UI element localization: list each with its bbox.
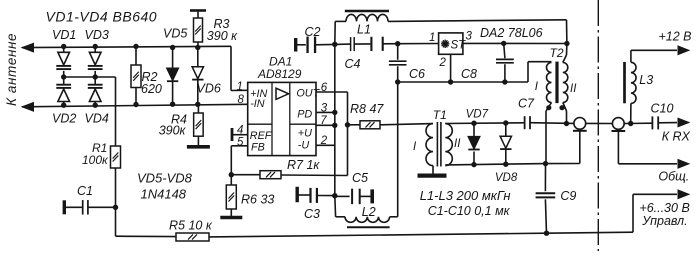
svg-text:C4: C4 [345, 57, 361, 71]
svg-text:FB: FB [251, 142, 265, 154]
svg-text:II: II [570, 83, 577, 95]
svg-text:2: 2 [320, 135, 328, 147]
svg-text:7: 7 [320, 115, 327, 127]
svg-text:VD5-VD8: VD5-VD8 [137, 171, 193, 186]
svg-text:2: 2 [439, 57, 447, 69]
svg-text:VD6: VD6 [197, 82, 221, 96]
svg-text:1: 1 [429, 32, 435, 44]
svg-text:8: 8 [238, 94, 245, 106]
svg-text:VD5: VD5 [163, 26, 187, 40]
svg-text:OUT: OUT [296, 87, 320, 99]
svg-text:C2: C2 [305, 25, 321, 39]
svg-text:С1-С10 0,1 мк: С1-С10 0,1 мк [428, 204, 511, 218]
svg-text:T2: T2 [550, 46, 564, 60]
svg-text:+6...30 В: +6...30 В [639, 201, 689, 215]
svg-text:C6: C6 [409, 67, 425, 81]
svg-text:C8: C8 [461, 67, 477, 81]
svg-text:L1-L3 200 мкГн: L1-L3 200 мкГн [420, 188, 511, 203]
svg-text:C5: C5 [352, 171, 368, 185]
svg-text:VD2: VD2 [52, 112, 76, 126]
svg-text:C3: C3 [304, 207, 320, 221]
svg-text:VD4: VD4 [85, 112, 109, 126]
svg-text:R5 10 к: R5 10 к [169, 219, 213, 233]
svg-text:-IN: -IN [250, 98, 265, 110]
svg-text:VD1-VD4 BB640: VD1-VD4 BB640 [46, 9, 158, 25]
svg-text:R7 1к: R7 1к [287, 158, 320, 172]
svg-text:3: 3 [466, 31, 473, 43]
svg-text:VD7: VD7 [466, 109, 489, 121]
svg-text:6: 6 [321, 82, 328, 94]
svg-text:1: 1 [237, 81, 243, 93]
svg-text:3: 3 [321, 103, 328, 115]
svg-text:VD3: VD3 [85, 28, 109, 42]
svg-text:К RX: К RX [662, 130, 691, 144]
svg-text:R8 47: R8 47 [350, 102, 384, 116]
svg-text:C9: C9 [560, 189, 576, 203]
svg-text:VD1: VD1 [52, 28, 76, 42]
svg-text:C7: C7 [518, 96, 535, 110]
svg-text:ST: ST [451, 40, 467, 52]
svg-text:REF: REF [250, 130, 273, 142]
svg-text:L3: L3 [639, 73, 653, 87]
svg-text:390 к: 390 к [207, 29, 238, 43]
svg-text:620: 620 [141, 82, 162, 96]
svg-text:100к: 100к [82, 153, 109, 167]
svg-text:390к: 390к [159, 123, 187, 137]
svg-text:C10: C10 [651, 102, 674, 116]
svg-text:DA2 78L06: DA2 78L06 [480, 26, 543, 40]
svg-text:T1: T1 [433, 108, 447, 122]
svg-text:Управл.: Управл. [641, 214, 687, 228]
svg-text:К антенне: К антенне [4, 33, 19, 106]
svg-text:VD8: VD8 [495, 172, 518, 184]
svg-text:C1: C1 [77, 184, 93, 198]
svg-text:II: II [454, 138, 461, 150]
svg-text:L1: L1 [357, 22, 371, 36]
svg-text:5: 5 [237, 136, 244, 148]
svg-text:4: 4 [237, 125, 243, 137]
svg-text:+12 В: +12 В [659, 30, 692, 44]
svg-text:+U: +U [298, 128, 312, 140]
svg-text:L2: L2 [362, 205, 376, 219]
svg-text:AD8129: AD8129 [257, 67, 302, 81]
svg-text:-U: -U [298, 140, 310, 152]
svg-text:1N4148: 1N4148 [141, 186, 187, 201]
svg-text:R6 33: R6 33 [241, 193, 274, 207]
svg-text:PD: PD [297, 109, 312, 121]
svg-text:Общ.: Общ. [658, 169, 689, 183]
